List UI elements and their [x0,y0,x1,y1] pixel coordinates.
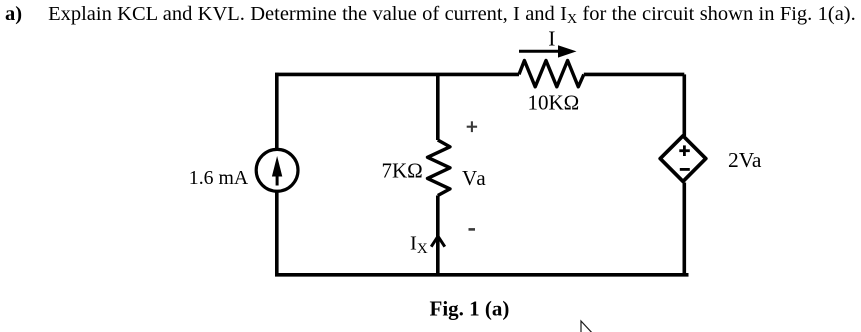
svg-text:10KΩ: 10KΩ [528,91,580,115]
wire bottom [275,273,688,277]
wire left vertical [275,73,279,149]
wire right vertical lower [682,183,686,277]
current source arrow [272,156,282,186]
wire top right segment [584,73,685,77]
label + (Va polarity) [467,121,477,132]
Ix arrow head on middle wire [431,236,445,246]
question text [5,3,861,26]
wire middle vertical lower [436,196,440,277]
svg-text:Va: Va [462,166,487,190]
resistor 7KΩ zigzag [428,140,451,196]
svg-text:IX: IX [410,233,428,258]
current I arrow above 10K [519,45,577,57]
svg-text:1.6 mA: 1.6 mA [189,167,249,189]
svg-text:I: I [548,26,555,50]
wire top left segment [275,73,519,77]
wire left vertical lower [275,192,279,277]
dependent source diamond 2Va [660,136,706,182]
svg-text:7KΩ: 7KΩ [382,159,423,183]
svg-text:2Va: 2Va [728,148,762,172]
mouse cursor [581,321,594,332]
svg-text:Fig. 1 (a): Fig. 1 (a) [430,297,510,321]
plus sign in diamond [679,145,690,156]
label - (Va polarity) [469,228,476,231]
minus sign in diamond [680,168,690,171]
current source circle 1.6mA [256,149,298,191]
wire middle vertical upper [436,74,440,140]
resistor 10KΩ zigzag [519,61,584,87]
wire right vertical upper [682,74,686,136]
